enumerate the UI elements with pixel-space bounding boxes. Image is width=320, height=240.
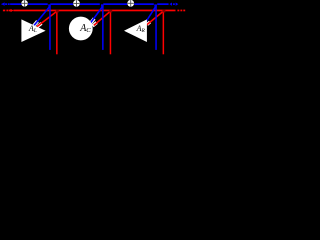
wire: red bus right dash 1 xyxy=(177,10,179,12)
white casing under red diagonal 1 xyxy=(38,23,42,26)
background xyxy=(0,0,186,60)
wire: red bus right dash 2 xyxy=(180,10,182,12)
wire: blue diagonal from A_L top edge to tap 1 xyxy=(34,6,50,25)
white casing under blue diagonal 2 xyxy=(90,19,94,24)
wire: blue bus segment node1 to tap1 xyxy=(28,3,48,5)
amplifier A_L (right-pointing triangle) xyxy=(21,19,45,42)
white casing under blue diagonal 1 xyxy=(34,21,38,25)
wire: red bus left dash 2 xyxy=(6,10,8,12)
wire: red vertical drop at junction 3 xyxy=(163,11,165,54)
wire: red diagonal from A_R back edge to red junction 3 xyxy=(147,11,164,25)
junction blob: red junction 1 xyxy=(56,9,59,12)
wire: red diagonal from A_L top edge to red junction 1 xyxy=(37,11,57,26)
wire: blue bus segment to summing node 1 xyxy=(10,3,21,5)
wire: red diagonal from A_C edge to red junction 2 xyxy=(94,11,111,25)
amplifier A_C (circle) xyxy=(69,17,93,41)
wire: blue vertical drop at tap 3 xyxy=(155,5,157,50)
blue tap blob 2 xyxy=(101,4,104,6)
amplifier A_R (left-pointing triangle) xyxy=(124,19,147,42)
wire: blue bus segment node3 to tap3 xyxy=(134,3,154,5)
wire: red bus left arrowhead (points right) xyxy=(11,9,14,12)
summing node 1 (circle with plus) xyxy=(21,0,28,7)
wire: red vertical drop at junction 1 xyxy=(56,11,58,54)
wire: red bus main run xyxy=(13,10,175,12)
junction blob: red junction 3 xyxy=(162,9,165,12)
blue tap blob 3 xyxy=(154,4,157,6)
white casing under red diagonal 2 xyxy=(93,23,97,26)
wire: blue vertical drop at tap 1 xyxy=(49,5,51,50)
junction blob: red junction 2 xyxy=(109,9,112,12)
white casing under red diagonal 3 xyxy=(147,22,150,25)
wire: blue bus right dash xyxy=(173,3,175,5)
wire: blue bus right outer arrowhead (points right) xyxy=(176,3,179,6)
wire: blue vertical drop at tap 2 xyxy=(102,5,104,50)
wire: red bus left dash 3 xyxy=(9,10,11,12)
wire: red bus right dash 3 xyxy=(183,10,185,12)
wire: red vertical drop at junction 2 xyxy=(110,11,112,54)
wire: blue bus left arrowhead (points left, off-page) xyxy=(1,2,5,5)
wire: blue bus segment tap1 to summing node 2 xyxy=(50,3,73,5)
wire: blue bus segment tap3 to right end xyxy=(157,3,168,5)
wire: blue diagonal from A_C edge to tap 2 xyxy=(90,6,103,23)
wire: blue bus right inner arrowhead (points left) xyxy=(169,3,172,6)
wire: blue bus left dash 2 xyxy=(8,3,10,5)
wire: blue diagonal from A_R back edge to tap 3 xyxy=(146,6,156,22)
wire: blue bus left dash 1 xyxy=(5,3,7,5)
blue tap blob 1 (apex below bus gap) xyxy=(48,4,50,6)
summing node 3 (circle with plus) xyxy=(127,0,134,7)
wire: red bus left dash 1 xyxy=(3,10,5,12)
wire: blue bus segment tap2 to summing node 3 xyxy=(103,3,127,5)
summing node 2 (circle with plus) xyxy=(73,0,80,7)
wire: blue bus segment node2 to tap2 xyxy=(80,3,100,5)
